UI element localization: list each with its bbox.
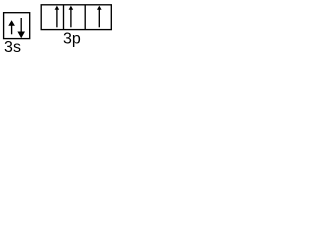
down arrow (3s) <box>17 18 25 38</box>
svg-text:3p: 3p <box>63 31 81 48</box>
up arrow 1 (3p) <box>55 6 60 28</box>
3s orbital box <box>4 13 30 39</box>
up arrow 3 (3p) <box>97 6 102 28</box>
3p orbital group <box>41 5 111 30</box>
divider 1 <box>63 5 65 30</box>
up arrow (3s) <box>8 20 15 34</box>
up arrow 2 (3p) <box>69 6 74 28</box>
svg-text:3s: 3s <box>4 39 21 54</box>
divider 2 <box>84 5 86 30</box>
